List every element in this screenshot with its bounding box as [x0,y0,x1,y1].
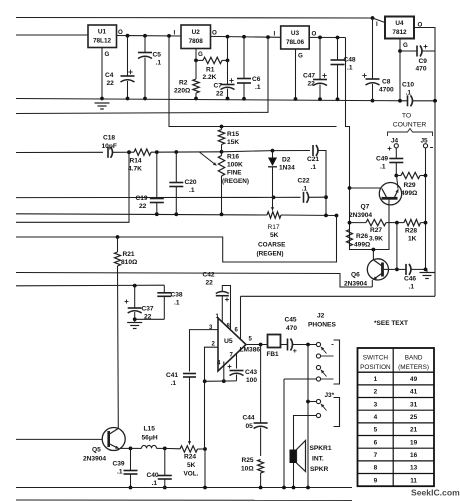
label C47 [303,73,315,88]
node C21-C22 join junction [324,214,328,218]
resistor R25 [258,460,264,488]
node U3 ground junction [294,97,298,101]
svg-text:7812: 7812 [392,29,407,36]
svg-text:1N34: 1N34 [279,165,295,172]
resistor R15 [218,127,224,152]
wire L15 to R24 [165,447,180,449]
node C47 top junction [318,36,322,40]
svg-text:2N3904: 2N3904 [344,281,367,288]
svg-text:.1: .1 [171,380,177,387]
minus mark J5 [430,147,433,149]
polarity mark C45 [293,349,297,353]
node C5 top junction [143,34,147,38]
svg-text:3.9K: 3.9K [369,236,383,243]
node output junction [306,343,310,347]
node R29 right junction [424,174,428,178]
svg-text:U5: U5 [224,338,233,345]
node C39 bottom junction [129,486,133,490]
node speaker ground junction [292,486,296,490]
svg-text:.1: .1 [255,84,261,91]
label R24 [184,454,199,478]
wire R27 node to R28 [397,222,404,224]
svg-text:78L06: 78L06 [286,39,305,46]
node C48 top junction [336,36,340,40]
svg-text:U1: U1 [98,29,107,36]
label C39 [113,461,125,476]
node top-rail to U4 input junction [371,16,375,20]
svg-text:2: 2 [374,389,378,396]
label C5 value [153,52,162,67]
wire D2 node to C21 [273,150,311,152]
pin I label U4 [376,21,378,28]
node C5 bottom junction [143,97,147,101]
node C40 top junction [163,447,167,451]
svg-text:R14: R14 [130,158,142,165]
svg-text:.1: .1 [347,65,353,72]
svg-text:FINE: FINE [227,170,242,177]
capacitor C19 [150,152,164,214]
svg-text:470: 470 [286,325,297,332]
node R16 bottom junction [220,213,224,217]
wire C9 right to rail [422,50,435,52]
polarity mark C43 [228,365,232,369]
label C9 [416,58,428,73]
connector J2 contact 1 [316,342,320,346]
capacitor C21 [313,145,318,156]
svg-text:3: 3 [374,401,378,408]
svg-text:470: 470 [416,66,427,73]
node R25 bottom junction [259,486,263,490]
svg-text:22: 22 [216,91,224,98]
label C40 [147,472,159,487]
svg-text:22: 22 [308,81,316,88]
wire C37-C38 bottom tie [135,318,165,320]
svg-text:L15: L15 [144,426,156,433]
capacitor C48 [331,38,345,100]
svg-text:.1: .1 [117,469,123,476]
polarity mark C9 [424,45,428,49]
svg-text:78L12: 78L12 [93,38,112,45]
connector J4 [391,138,399,159]
svg-text:C45: C45 [285,317,297,324]
node C6 top junction [242,35,246,39]
node C19 bottom junction [155,212,159,216]
node rail-222 tap junction [127,150,131,154]
connector J5 [421,138,429,176]
node C22 right junction [324,195,328,199]
wiper arrow R24 [188,381,191,444]
potentiometer R17 [267,212,281,218]
svg-text:G: G [298,53,303,60]
wire main ground rail [16,99,373,101]
wire node to D2 [222,151,273,152]
wire top +V rail [16,18,385,23]
svg-text:.1: .1 [311,164,317,171]
transistor Q7 [350,176,402,205]
svg-text:C18: C18 [103,135,115,142]
wire C8 node to C10 [373,100,408,102]
svg-text:POSITION: POSITION [360,364,391,371]
pin O label U2 [212,30,217,37]
regulator U2 7808 [181,25,211,49]
label C18 [102,135,117,151]
svg-text:.1: .1 [152,480,158,487]
svg-text:5K: 5K [187,462,196,469]
svg-text:R15: R15 [227,131,239,138]
svg-text:C21: C21 [307,156,319,163]
resistor R14 [134,149,151,155]
capacitor C37 [128,286,142,320]
polarity mark C47 [322,73,326,77]
node C49 bottom junction [394,174,398,178]
pin I label U3 [274,31,276,38]
wire U1 output to U2 input [117,35,182,38]
node C20 top junction [174,150,178,154]
svg-text:C49: C49 [376,156,388,163]
capacitor C10 [408,95,413,106]
wire G node to C9 [400,50,417,52]
svg-text:13: 13 [410,465,418,472]
node R27 left junction [348,221,352,225]
svg-text:C22: C22 [298,178,310,185]
label R17 [257,224,287,258]
node C7 bottom junction [226,97,230,101]
svg-text:VOL.: VOL. [184,471,199,478]
svg-text:J3*: J3* [325,392,335,399]
node C20 bottom junction [174,212,178,216]
label R21 [121,251,138,266]
wire detector line C18 [16,151,103,153]
resistor R29 [396,172,425,178]
node J2 ground junction [282,486,286,490]
pin 3 label [209,325,213,331]
node U2 G junction [194,59,198,63]
wire U4 ground lead [399,39,401,52]
wire output riser down [307,345,309,488]
watermark SeekIC.com [411,488,460,498]
switch arrow J2 lower [321,370,327,377]
label L15 [142,426,158,442]
wire J2 sleeve to ground [284,379,334,488]
svg-text:I: I [174,30,176,37]
svg-text:C5: C5 [153,52,162,59]
polarity mark C4 [128,70,132,74]
svg-text:810Ω: 810Ω [121,259,138,266]
wire C21 right corner down [318,151,326,216]
wire G node down to C10 rail [399,51,401,101]
svg-text:C6: C6 [252,76,261,83]
svg-text:C47: C47 [303,73,315,80]
resistor R26 [347,230,353,247]
resistor R21 [115,237,121,428]
capacitor C8 [366,18,380,101]
svg-text:C8: C8 [382,79,391,86]
svg-text:U4: U4 [395,20,404,27]
label C4 value [105,72,114,87]
node R1 right junction [226,59,230,63]
node Q6 base junction [395,268,399,272]
svg-text:O: O [118,29,123,36]
svg-text:10Ω: 10Ω [241,466,254,473]
wire FB1 to C45 [281,344,288,346]
svg-text:05: 05 [246,423,254,430]
ground symbol J5 rail [420,269,435,278]
svg-text:I: I [274,31,276,38]
inductor L15 [131,445,165,448]
wire C18 to R14 [112,151,134,153]
svg-text:I: I [376,21,378,28]
ground symbol C37 [127,319,142,328]
label C7 [214,83,224,98]
label R27 [369,227,383,243]
wire R14 to R16 node [151,151,222,153]
capacitor C22 [304,192,309,203]
svg-text:R1: R1 [206,67,215,74]
pin 7 lead [236,354,238,369]
table switch position vs band [358,348,435,486]
svg-text:7808: 7808 [189,38,204,45]
wire short rail y222 [16,152,129,222]
node U4 G junction [398,49,402,53]
svg-text:1: 1 [374,376,378,383]
svg-text:220Ω: 220Ω [174,88,191,95]
ferrite bead FB1 [268,335,281,348]
pin O label U4 [418,22,423,29]
svg-text:FB1: FB1 [267,351,280,358]
node Q6 collector junction [372,248,376,252]
svg-text:.1: .1 [380,164,386,171]
connector J3 contact 2 [294,413,321,449]
label J2 PHONES [308,313,336,329]
svg-text:31: 31 [410,401,418,408]
svg-text:19: 19 [410,439,418,446]
label C6 [252,76,261,91]
svg-text:2.2K: 2.2K [203,74,217,81]
node R24 right junction [203,447,207,451]
pin 1 label [216,314,220,320]
svg-text:.1: .1 [409,284,415,291]
ground symbol below U1 [95,103,110,109]
svg-text:2N3904: 2N3904 [349,212,372,219]
svg-text:R28: R28 [405,228,417,235]
pin G label U1 [105,51,110,58]
svg-text:R2: R2 [179,80,188,87]
jack body J3 [334,398,340,427]
pin 5 label [249,337,253,343]
wire U3 ground lead [295,49,297,99]
svg-text:(REGEN): (REGEN) [257,251,284,258]
svg-text:49: 49 [410,376,418,383]
svg-text:G: G [403,42,408,49]
label C19 [136,195,148,210]
node C40 bottom junction [163,486,167,490]
svg-text:4700: 4700 [379,87,394,94]
svg-text:R21: R21 [123,251,135,258]
svg-text:1K: 1K [408,236,417,243]
wire U2 ground lead [195,49,197,61]
label C43 [245,369,257,384]
wire rail B to Q6 emitter [16,273,372,288]
label R26 [354,233,371,249]
label C10 [402,82,414,97]
node wireA join junction [335,214,339,218]
wire C37 rail [16,284,164,287]
wire J5 rail down [425,176,427,270]
speaker SPKR1 [290,441,306,488]
node U3 input junction [266,35,270,39]
svg-text:22: 22 [139,203,147,210]
svg-text:R27: R27 [370,227,382,234]
label R1 [203,67,217,82]
wire R24 right [198,448,206,450]
node C6 bottom junction [242,97,246,101]
capacitor C18 [108,147,113,158]
wire pin5 output [246,344,268,346]
svg-text:.1: .1 [302,186,308,193]
svg-text:4.7K: 4.7K [128,166,142,173]
svg-text:BAND: BAND [405,355,423,362]
label FB1 [267,351,280,358]
node C46 right junction [424,268,428,272]
wire bottom edge rail [16,499,352,501]
capacitor C43 [230,371,244,381]
svg-text:C42: C42 [203,272,215,279]
svg-text:LM386: LM386 [240,347,261,354]
node pin4 junction [222,379,226,383]
svg-text:8: 8 [374,465,378,472]
op-amp U5 LM386 [218,318,260,371]
node C37 ground junction [133,317,137,321]
svg-text:SeekIC.com: SeekIC.com [411,488,460,498]
node R15-R16 junction [220,150,224,154]
wire U4 output corner [414,28,435,52]
wire section bottom supply line [241,295,436,297]
regulator U1 78L12 [88,25,117,48]
svg-text:C43: C43 [245,369,257,376]
svg-text:21: 21 [410,427,418,434]
label D2 [279,157,295,172]
wire Q7 base net down [396,223,398,270]
switch arrow J3 [321,404,327,411]
node C19 top junction [155,150,159,154]
svg-text:C9: C9 [419,58,428,65]
pin 4 lead [223,362,225,382]
resistor R28 [404,219,426,225]
connector J2 contact 3 [316,365,320,369]
node C47 bottom junction [318,97,322,101]
svg-text:U2: U2 [192,29,201,36]
svg-text:C37: C37 [142,306,154,313]
svg-text:7: 7 [374,452,378,459]
node C4 top junction [126,34,130,38]
capacitor C40 [158,448,172,487]
svg-text:U3: U3 [291,30,300,37]
svg-text:D2: D2 [282,157,291,164]
pin G label U4 [403,42,408,49]
svg-text:9: 9 [374,477,378,484]
svg-text:16: 16 [410,452,418,459]
polarity mark C8 [362,73,366,77]
label C44 [243,415,255,431]
pin G label U2 [198,51,203,58]
node C44 top junction [259,343,263,347]
node pin2 riser dot [203,379,207,383]
svg-text:15K: 15K [227,139,239,146]
label C37 [142,306,154,321]
svg-text:R17: R17 [268,224,280,231]
label R29 [401,182,418,197]
svg-text:2N3904: 2N3904 [83,456,106,463]
wire C42 top bar to pin8 [222,286,230,331]
potentiometer R16 [218,152,224,214]
node Q7 collector junction [348,186,352,190]
node R15 top junction [220,125,224,129]
wire lower input rail [16,37,268,113]
pin O label U3 [312,31,317,38]
svg-text:C4: C4 [105,72,114,79]
capacitor C41 [183,374,196,382]
resistor R1 [196,57,228,63]
capacitor C5 [138,36,152,99]
svg-text:22: 22 [107,80,115,87]
pin 8 label [227,324,231,330]
capacitor C44 [254,345,268,457]
wire feedback rail2 to Q6 base net [16,216,337,263]
node U1 ground junction [100,97,104,101]
svg-text:56μH: 56μH [142,435,158,442]
svg-text:C41: C41 [166,372,178,379]
label R15 [227,131,239,146]
label Q6 [344,272,367,288]
capacitor C42 gain [216,292,229,296]
pin 2 label [212,342,216,348]
capacitor C6 [237,37,251,99]
jack body J2 [332,340,340,384]
svg-text:TO: TO [402,113,411,120]
wire AGC line [16,196,274,198]
label R16 [222,154,249,186]
label C45 [285,317,298,333]
node D2 top junction [271,149,275,153]
node oscillator feed junction [167,34,171,38]
svg-text:.1: .1 [156,60,162,67]
wire regen supply rail down [346,38,390,250]
wire input rail to U1 [16,34,88,36]
wiper arrow D2-R17 [271,197,274,210]
transistor Q6 [367,250,397,288]
wire D2 node to C22 [274,196,301,198]
label SPKR1 [310,445,332,473]
wire U3 output rail [309,36,345,38]
label C22 [298,178,310,193]
node R27 right junction [395,221,399,225]
polarity mark C37 [125,300,129,304]
wire C45 to J2 [292,344,316,346]
capacitor C39 [124,448,138,487]
label Q7 [349,204,372,220]
polarity mark J4 [388,147,392,151]
node R2 bottom junction [194,97,198,101]
wire right supply rail down [434,51,436,296]
potentiometer R24 [180,446,198,452]
svg-text:C44: C44 [243,415,255,422]
svg-text:G: G [105,51,110,58]
node output riser bottom junction [306,486,310,490]
label C46 [404,276,416,291]
node C37 top junction [133,284,137,288]
node pin2 bottom junction [203,486,207,490]
svg-text:5: 5 [374,427,378,434]
